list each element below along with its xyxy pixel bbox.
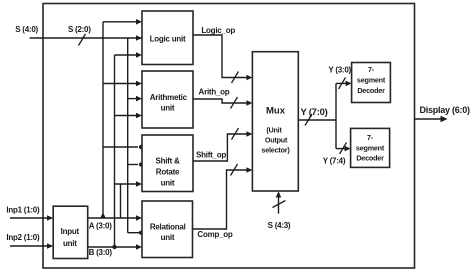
wire B bus top branch to logic unit <box>115 54 139 56</box>
wire S branch to shift unit <box>128 164 138 166</box>
svg-text:Decoder: Decoder <box>357 86 385 95</box>
svg-text:S (4:0): S (4:0) <box>15 25 38 34</box>
wire A branch to arithmetic unit <box>103 83 138 85</box>
wire Display output <box>415 118 443 120</box>
outer system boundary box <box>43 4 415 269</box>
7-segment decoder D2 <box>351 128 390 167</box>
wire S(4:3) select input <box>278 196 280 214</box>
wire A bus top branch to logic unit <box>103 21 138 23</box>
svg-text:Logic unit: Logic unit <box>150 35 186 44</box>
svg-text:selector): selector) <box>261 146 290 155</box>
svg-text:S (4:3): S (4:3) <box>268 221 291 230</box>
svg-text:Display (6:0): Display (6:0) <box>419 105 470 115</box>
svg-text:Shift_op: Shift_op <box>196 150 226 159</box>
dot B bus junction <box>112 245 116 249</box>
svg-text:Input: Input <box>61 227 80 236</box>
logic unit U1 <box>142 11 193 65</box>
arrowhead arith a3 <box>136 113 142 119</box>
svg-text:Relational: Relational <box>150 222 186 231</box>
arrowhead mux in3 <box>246 131 252 137</box>
wire Y split vertical <box>335 83 337 148</box>
slash Comp_op <box>231 164 238 176</box>
arrowhead decoder2 in <box>345 146 351 152</box>
arrowhead A bus junction pointing up <box>100 213 106 219</box>
svg-text:unit: unit <box>63 239 77 248</box>
svg-text:Inp1 (1:0): Inp1 (1:0) <box>6 205 40 214</box>
arrowhead shift a3 <box>136 181 142 187</box>
svg-text:unit: unit <box>161 178 175 187</box>
mux U6 <box>252 52 298 191</box>
svg-text:Y (3:0): Y (3:0) <box>328 65 351 74</box>
wire B branch to arithmetic unit <box>115 115 139 117</box>
arithmetic unit U2 <box>142 71 193 128</box>
arrowhead arith a2 <box>136 96 142 102</box>
svg-text:Decoder: Decoder <box>356 154 384 163</box>
wire Logic_op <box>193 35 248 78</box>
svg-text:B (3:0): B (3:0) <box>89 248 113 257</box>
arrowhead mux select <box>276 191 282 197</box>
arrowhead Display <box>441 116 448 122</box>
svg-text:Arith_op: Arith_op <box>199 88 230 97</box>
arrowhead mux in2 <box>246 100 252 106</box>
wire S(4:0) input <box>30 37 142 39</box>
svg-text:7-: 7- <box>367 133 374 142</box>
svg-text:Y (7:4): Y (7:4) <box>323 157 346 166</box>
svg-text:Arithmetic: Arithmetic <box>150 93 188 102</box>
wire Arith_op <box>193 99 248 103</box>
arrowhead logic a2 (S wire) <box>136 35 142 41</box>
slash Y(7:0) <box>305 114 312 126</box>
arrowhead logic a3 <box>136 52 142 58</box>
wire S branch to arithmetic unit <box>128 98 138 100</box>
wire A bus vertical <box>102 22 104 218</box>
svg-text:segment: segment <box>356 144 385 153</box>
svg-text:Comp_op: Comp_op <box>197 230 233 239</box>
shift and rotate unit U3 <box>142 135 193 192</box>
arrowhead Inp1 <box>47 215 53 221</box>
svg-text:Rotate: Rotate <box>156 168 180 177</box>
wire Shift_op <box>193 134 248 161</box>
svg-text:unit: unit <box>161 233 175 242</box>
slash S(2:0) bus width <box>79 34 86 46</box>
slash Shift_op <box>232 128 239 140</box>
dot shift a1 <box>139 145 143 149</box>
svg-text:(Unit: (Unit <box>266 126 282 135</box>
arrowhead Inp2 <box>47 243 53 249</box>
7-segment decoder D1 <box>352 63 391 103</box>
svg-text:Inp2 (1:0): Inp2 (1:0) <box>6 233 40 242</box>
wire B(3:0) from input unit to relational unit <box>88 246 138 248</box>
arrowhead arith a1 <box>136 81 142 87</box>
input unit U5 <box>53 206 87 258</box>
svg-text:Output: Output <box>265 136 288 145</box>
wire B branch to shift unit <box>115 183 139 185</box>
svg-text:segment: segment <box>357 76 386 85</box>
slash Arith_op <box>231 97 238 109</box>
svg-text:Y (7:0): Y (7:0) <box>300 107 327 118</box>
svg-text:A (3:0): A (3:0) <box>89 221 112 230</box>
wire Y(7:4) branch to decoder2 <box>336 148 347 150</box>
wire A branch to shift unit <box>103 146 138 148</box>
wire S bus bottom branch to relational unit <box>128 232 139 234</box>
svg-text:unit: unit <box>161 104 175 113</box>
arrowhead relational a3 <box>136 244 142 250</box>
slash Y(7:4) <box>340 143 347 155</box>
wire Y(7:0) mux output <box>298 119 336 121</box>
wire A(3:0) from input unit to relational unit <box>88 217 138 219</box>
svg-text:S (2:0): S (2:0) <box>68 25 91 34</box>
svg-text:7-: 7- <box>368 65 375 74</box>
slash S(4:3) <box>273 201 286 208</box>
wire Comp_op <box>193 170 249 229</box>
wire Y(3:0) branch to decoder1 <box>336 82 348 84</box>
wire stub vertical joining shift a3 wire to A wire <box>120 184 122 218</box>
wire B bus vertical <box>114 55 116 247</box>
wire Inp1 input <box>10 217 49 219</box>
slash Logic_op <box>232 72 239 84</box>
dot shift a2 <box>139 162 143 166</box>
arrowhead relational a1 <box>136 215 142 221</box>
arrowhead logic a1 <box>136 19 142 25</box>
dot relational a2 <box>139 231 143 235</box>
relational unit U4 <box>142 201 193 258</box>
wire S bus vertical <box>127 38 129 233</box>
slash Y(3:0) <box>339 78 346 90</box>
svg-text:Logic_op: Logic_op <box>201 26 235 35</box>
arrowhead mux in4 <box>246 167 252 173</box>
arrowhead mux in1 <box>246 75 252 81</box>
svg-text:Mux: Mux <box>266 106 286 117</box>
svg-text:Shift &: Shift & <box>155 156 179 165</box>
arrowhead decoder1 in <box>346 81 352 87</box>
wire Inp2 input <box>10 245 49 247</box>
